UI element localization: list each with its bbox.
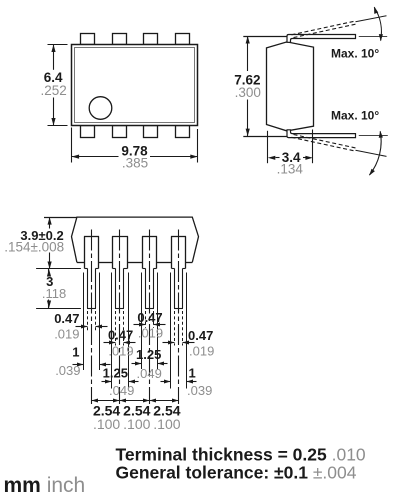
lead 4 wide portion — [171, 237, 173, 269]
lead 2 width extension lines — [111, 273, 113, 389]
lead 2 wide portion — [112, 237, 114, 269]
top-view lead tab top 1 — [81, 34, 95, 45]
svg-text:General tolerance: ±0.1 ±.004: General tolerance: ±0.1 ±.004 — [116, 463, 357, 483]
svg-text:mm inch: mm inch — [4, 474, 86, 497]
dimension 3.4/.134 dimension line with arrows — [276, 157, 280, 159]
lead 3 centre line — [149, 230, 151, 405]
dimension 7.62/.300 dimension line with arrows — [247, 36, 249, 71]
lead 1 narrow tip — [87, 269, 89, 309]
dimension 1.25/.049 lead 3 — [132, 363, 142, 365]
front-view package body outline — [72, 217, 199, 262]
svg-text:.118: .118 — [42, 286, 66, 301]
dimension 9.78/.385 dimension line with arrows — [72, 156, 119, 158]
svg-text:1.25: 1.25 — [103, 366, 128, 381]
svg-text:0.47: 0.47 — [188, 328, 213, 343]
svg-text:.049: .049 — [109, 383, 134, 398]
svg-text:.134: .134 — [277, 162, 304, 177]
dimension 1/.039 lead 1 — [73, 364, 84, 366]
lead 4 shoulder step — [172, 268, 175, 270]
lead 3 wide portion — [142, 237, 144, 269]
lead 3 shoulder step — [143, 268, 146, 270]
svg-text:.100: .100 — [123, 416, 150, 432]
svg-text:0.47: 0.47 — [108, 328, 133, 343]
top-view package body outline — [72, 45, 198, 126]
svg-text:1: 1 — [189, 366, 196, 381]
dimension 3.9±0.2/.154±.008 dimension line with arrows — [49, 217, 51, 228]
max-angle dashed lead position bottom — [292, 137, 357, 151]
lead 2 centre line — [119, 230, 121, 405]
angle reference line bottom — [359, 135, 388, 137]
lead 4 narrow tip — [174, 269, 176, 309]
lead 2 tip width dashed extension lines — [115, 311, 117, 346]
dimension 0.47/.019 lead 2 — [104, 342, 116, 344]
svg-text:Terminal thickness = 0.25 .010: Terminal thickness = 0.25 .010 — [116, 444, 366, 464]
svg-text:.039: .039 — [55, 363, 80, 378]
svg-text:Max. 10°: Max. 10° — [331, 47, 379, 61]
svg-text:.049: .049 — [137, 366, 162, 381]
dimension 2.54 pitch row dimension lines with arrows — [92, 400, 120, 402]
side-view package body outline — [267, 42, 314, 131]
svg-text:.154±.008: .154±.008 — [4, 240, 64, 255]
side-view bottom lead (bent flat) — [287, 130, 356, 138]
extension line at front-view body top — [44, 217, 77, 219]
lead 3 tip width dashed extension lines — [145, 311, 147, 328]
svg-text:.019: .019 — [138, 326, 163, 341]
svg-text:.039: .039 — [187, 383, 212, 398]
svg-text:.100: .100 — [93, 416, 120, 432]
lead 3 narrow tip — [145, 269, 147, 309]
dimension 0.47/.019 lead 3 — [134, 324, 146, 326]
angle reference line top — [359, 36, 387, 38]
svg-text:.385: .385 — [122, 156, 148, 171]
top-view lead tab top 4 — [176, 34, 190, 45]
side-view 7.62 extension line top — [243, 36, 287, 38]
top-view lead tab bottom 1 — [81, 126, 95, 138]
extension line at tip start — [36, 308, 81, 310]
dimension 1.25/.049 lead 2 — [102, 381, 112, 383]
side-view 7.62 extension line bottom — [243, 136, 287, 138]
dimension 0.47/.019 lead 4 — [163, 342, 175, 344]
lead 4 centre line — [178, 230, 180, 405]
top-view lead tab bottom 2 — [113, 126, 127, 138]
top-view package body inner edge — [75, 48, 195, 123]
top-view lead tab bottom 4 — [176, 126, 190, 138]
lead 2 shoulder step — [113, 268, 116, 270]
top-view lead tab top 2 — [113, 34, 127, 45]
lead 4 tip width dashed extension lines — [174, 311, 176, 346]
svg-text:1: 1 — [72, 345, 79, 360]
svg-text:0.47: 0.47 — [54, 311, 79, 326]
extension line at lead shoulder — [36, 268, 81, 270]
dimension 9.78/.385 extension lines — [71, 128, 73, 163]
svg-text:.019: .019 — [54, 327, 79, 342]
lead 4 width extension lines — [170, 273, 172, 389]
dimension 3.4/.134 extension lines — [267, 131, 269, 163]
dimension 3/.118 dimension line with arrows — [48, 269, 50, 276]
top-view lead tab top 3 — [144, 34, 158, 45]
dimension 0.47/.019 lead 1 — [76, 326, 88, 328]
pin 1 index circle — [89, 97, 112, 120]
svg-text:1.25: 1.25 — [136, 347, 161, 362]
svg-text:.100: .100 — [153, 416, 180, 432]
lead 3 width extension lines — [141, 273, 143, 370]
lead 1 shoulder step — [85, 268, 88, 270]
lead 2 narrow tip — [115, 269, 117, 309]
svg-text:Max. 10°: Max. 10° — [331, 109, 379, 123]
lead 1 wide portion — [84, 237, 86, 269]
svg-text:.019: .019 — [189, 344, 214, 359]
svg-text:.300: .300 — [235, 85, 261, 100]
svg-text:.252: .252 — [40, 83, 66, 98]
front-view body bottom edge segments — [77, 262, 84, 264]
angle arc bottom — [369, 131, 381, 175]
top-view lead tab bottom 3 — [144, 126, 158, 138]
lead 1 tip width dashed extension lines — [87, 311, 89, 331]
lead 1 width extension lines — [83, 273, 85, 371]
max-angle dashed lead position top — [292, 21, 357, 35]
angle arc top — [374, 7, 381, 40]
svg-text:.019: .019 — [108, 344, 133, 359]
dimension 6.4/.252 extension ticks — [48, 44, 68, 46]
max-angle solid extension line top — [356, 16, 387, 22]
svg-text:0.47: 0.47 — [137, 310, 162, 325]
dimension 6.4/.252 dimension line with arrows — [53, 45, 55, 70]
lead 1 centre line — [91, 230, 93, 405]
max-angle solid extension line bottom — [356, 150, 387, 156]
side-view top lead (bent flat) — [287, 35, 356, 43]
dimension 1/.039 lead 4 — [161, 381, 171, 383]
